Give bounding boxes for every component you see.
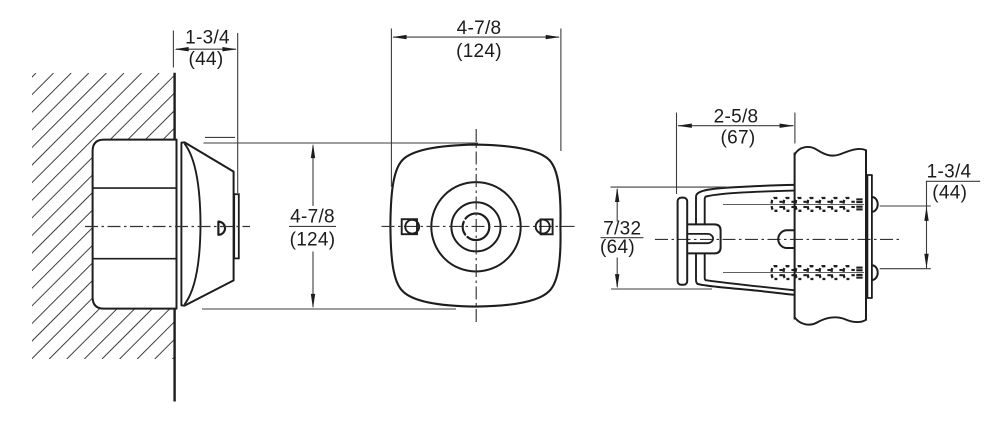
lower screw head bump — [872, 265, 878, 280]
dim text (64) — [600, 237, 635, 258]
lower projection line — [202, 308, 456, 310]
fraction bar 7/32 dim — [601, 237, 644, 239]
housing body groove line upper — [93, 187, 176, 189]
svg-text:1-3/4: 1-3/4 — [185, 27, 230, 48]
release catch D mark — [218, 222, 225, 235]
svg-text:(124): (124) — [290, 230, 336, 251]
dim text 2-5/8 — [714, 107, 759, 128]
catch recess bulge — [778, 230, 794, 248]
svg-text:4-7/8: 4-7/8 — [290, 206, 335, 227]
middle view vertical centerline — [475, 129, 477, 325]
dome back edge — [180, 143, 182, 306]
bumper plate — [678, 198, 688, 285]
dim text 4-7/8 top — [457, 18, 502, 39]
lower screw thread row — [772, 266, 863, 279]
bumper pad strip — [234, 194, 239, 258]
dimension 2-5/8 (67) — [677, 113, 795, 195]
bracket hub — [688, 224, 720, 253]
right mounting ear — [536, 219, 553, 234]
dim text (124) top — [456, 41, 502, 62]
inner snap ring — [463, 213, 490, 240]
svg-text:(67): (67) — [721, 128, 756, 149]
wall section hatching — [0, 73, 458, 359]
bottom neck inner line — [705, 253, 706, 280]
backplate — [867, 175, 872, 298]
dim text (44) right — [932, 183, 967, 204]
dim text (67) — [721, 128, 756, 149]
upper screw head bump — [872, 197, 878, 212]
dimension 7/32 (64) — [611, 187, 728, 289]
post left edge — [794, 153, 796, 320]
housing body groove line lower — [93, 258, 176, 260]
middle ring circle — [451, 202, 500, 251]
bottom horn outer edge — [697, 284, 793, 295]
top neck inner line — [705, 197, 706, 225]
dim text 1-3/4 — [185, 27, 230, 48]
dim text (44) — [189, 49, 224, 70]
housing body outline — [93, 140, 177, 309]
right view centerline — [655, 238, 901, 240]
dimension 1-3/4 (44) right view — [880, 181, 981, 268]
bumper stem — [688, 234, 713, 243]
fraction bar vertical dim — [289, 225, 336, 227]
lower screw axis line — [723, 272, 864, 274]
middle view horizontal centerline — [382, 225, 575, 227]
dim text 1-3/4 right — [927, 161, 972, 182]
dim text 4-7/8 vertical — [290, 206, 335, 227]
bottom neck outer line — [696, 253, 697, 283]
outer ring circle — [431, 182, 520, 271]
bottom horn inner edge — [706, 280, 794, 290]
dome outline — [182, 142, 234, 305]
top horn inner edge — [706, 191, 794, 197]
svg-text:(44): (44) — [189, 49, 224, 70]
svg-text:(44): (44) — [932, 183, 967, 204]
svg-text:(124): (124) — [456, 41, 502, 62]
post top break line — [795, 147, 866, 156]
left view centerline — [85, 226, 250, 228]
upper screw thread row — [772, 198, 863, 211]
upper projection line short — [205, 136, 235, 138]
dim text 7/32 — [603, 218, 641, 239]
svg-text:1-3/4: 1-3/4 — [927, 161, 972, 182]
dimension 1-3/4 (44) left view — [173, 31, 237, 194]
dome curvature arc — [185, 144, 201, 304]
top horn outer edge — [697, 185, 793, 194]
dimension 4-7/8 (124) vertical — [311, 144, 315, 309]
svg-text:2-5/8: 2-5/8 — [714, 107, 759, 128]
upper projection line — [204, 142, 479, 144]
dim text (124) vertical — [290, 230, 336, 251]
wall face line — [173, 73, 175, 402]
svg-text:(64): (64) — [600, 237, 635, 258]
svg-text:4-7/8: 4-7/8 — [457, 18, 502, 39]
dimension 4-7/8 (124) top — [391, 29, 561, 188]
post bottom break line — [795, 317, 866, 324]
post right edge — [865, 150, 867, 321]
top neck outer line — [696, 194, 697, 225]
face plate squircle outline — [390, 145, 560, 307]
upper screw axis line — [723, 203, 864, 205]
left mounting ear — [402, 219, 419, 234]
